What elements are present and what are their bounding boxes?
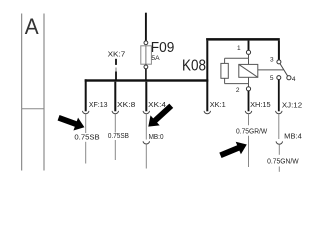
connector MB:0 [143,141,149,144]
wire 0.75GR/W upper [248,114,250,125]
wire XK:8 drop [114,82,116,112]
label XK:1 [210,100,226,109]
label 5A [151,55,160,62]
svg-text:F09: F09 [151,40,175,56]
svg-text:3: 3 [270,57,274,64]
relay coil [239,64,258,77]
svg-text:K08: K08 [182,57,206,74]
connector XH:15 [245,111,251,114]
pointer arrow 2 [144,101,176,132]
node contact 4 [287,76,291,80]
wire below MB:0 [145,144,147,168]
svg-text:MB:0: MB:0 [149,134,164,141]
svg-text:XJ:12: XJ:12 [282,100,302,109]
svg-text:0.75GN/W: 0.75GN/W [267,158,299,165]
svg-text:A: A [25,14,39,39]
connector XK:8 [112,111,118,114]
wire pin2 to XH:15 [248,91,250,111]
relay K08 top edge [206,38,280,41]
label 0.75GR/W [236,129,268,136]
wire coil top stub [248,58,250,64]
connector XF:13 [83,111,89,114]
wire supply top [145,13,147,41]
label F09 [151,40,175,56]
label pin 5 [270,75,274,82]
connector XK:7 pin [115,59,117,65]
wire bus left drop XF:13 [85,79,87,111]
wire 0.75GR/W lower [248,136,250,167]
svg-text:XH:15: XH:15 [250,100,271,109]
svg-text:XK:1: XK:1 [210,100,226,109]
relay K08 left edge / wire XK:1 [206,41,208,112]
wire resistor bottom stub [224,78,226,83]
wire relay pin 1 [248,41,250,51]
label XH:15 [250,100,271,109]
svg-text:0.75SB: 0.75SB [74,135,100,142]
wire XK:7 to bus [115,68,117,81]
label 0.75SB b [108,133,129,140]
pointer arrow 1 [56,111,86,133]
wire coil bottom horizontal [225,83,249,85]
connector XK:4 [143,111,149,114]
wire fuse to bus [145,69,147,81]
rail right line [43,14,45,171]
label K08 [182,57,206,74]
svg-text:5A: 5A [151,55,160,62]
label 0.75GN/W [267,158,299,165]
label XK:4 [148,100,166,109]
wire XK:4 drop [145,82,147,112]
svg-text:0.75GR/W: 0.75GR/W [236,129,268,136]
label XK:7 [108,50,126,59]
node fuse top terminal [144,41,148,45]
svg-text:MB:4: MB:4 [284,133,302,140]
fuse F09 [141,46,152,64]
node fuse bottom terminal [144,65,148,69]
wire coil bottom stub [248,77,250,86]
svg-text:5: 5 [270,75,274,82]
wire XJ:12 to MB:4 [278,114,280,139]
label A [25,14,39,39]
svg-text:0.75SB: 0.75SB [108,133,129,140]
wire contact5 to XJ:12 [278,80,280,112]
resistor (relay suppression) [221,63,228,78]
wire below MB:4 [278,144,280,154]
svg-text:XF:13: XF:13 [89,100,108,109]
label MB:4 [284,133,302,140]
relay K08 right edge to contact 3 [278,41,280,60]
rail left line [21,14,23,171]
wire 0.75SB b lower [114,140,116,160]
label pin 3 [270,57,274,64]
svg-text:XK:8: XK:8 [117,100,135,109]
wire coil actuator [258,69,284,71]
wire 0.75GN/W lower [278,167,280,172]
pointer arrow 3 [218,138,250,161]
node contact 5 [277,76,281,80]
wire 0.75SB a upper [85,114,87,133]
wire 0.75SB b upper [114,114,116,133]
wire resistor top stub [224,58,226,63]
svg-text:XK:7: XK:7 [108,50,126,59]
node pin 2 terminal [246,87,250,91]
label XK:8 [117,100,135,109]
rail crossbar [22,108,44,110]
connector XJ:12 [276,111,282,114]
svg-text:1: 1 [237,45,241,52]
label XF:13 [89,100,108,109]
node contact 3 [277,60,281,64]
bus wire [85,79,209,81]
node pin 1 terminal [246,50,250,54]
connector MB:4 [276,141,282,144]
svg-text:4: 4 [292,76,296,83]
label 0.75SB a [74,135,100,142]
wire coil top horizontal [225,57,249,59]
svg-text:2: 2 [236,87,240,94]
connector XK:1 [204,111,210,114]
switch blade 3 to 4 [280,64,288,77]
wire XK:4 to MB:0 [145,114,147,140]
wire pin1 to coil top [248,54,250,58]
label pin 4 [292,76,296,83]
label XJ:12 [282,100,302,109]
svg-text:XK:4: XK:4 [148,100,166,109]
label pin 1 [237,45,241,52]
label MB:0 [149,134,164,141]
wire 0.75SB a lower [85,142,87,164]
label pin 2 [236,87,240,94]
